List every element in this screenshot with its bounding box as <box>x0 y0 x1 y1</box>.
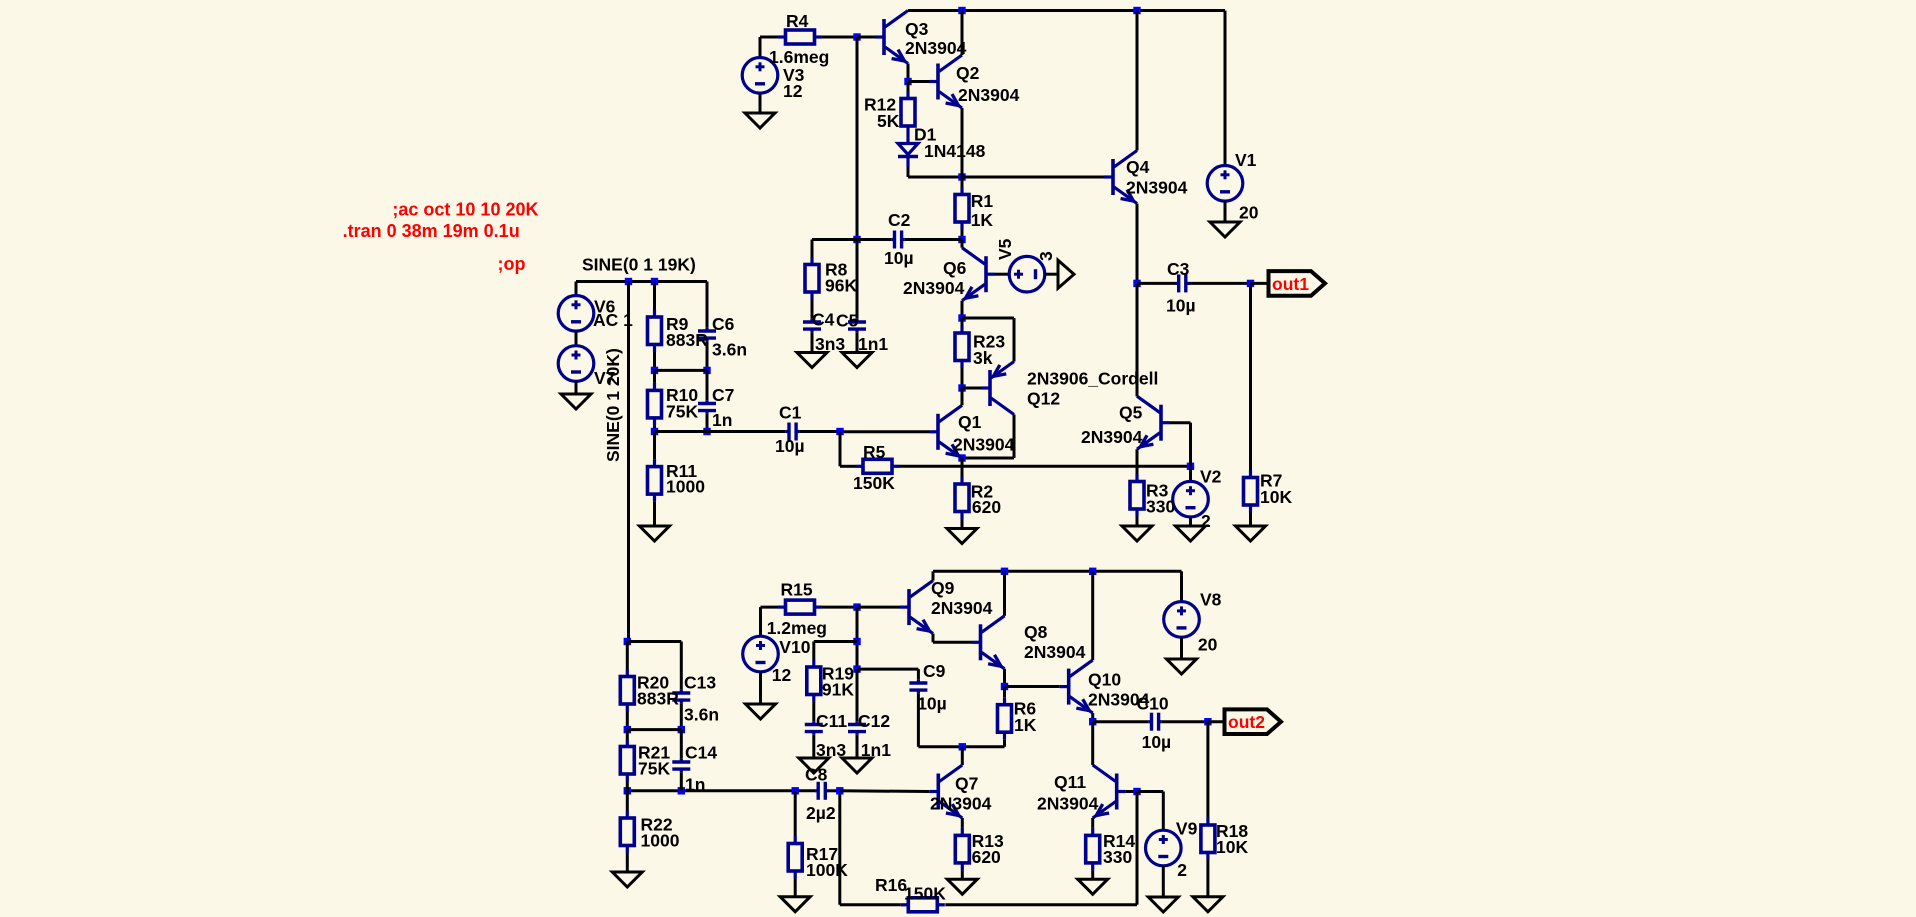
svg-text:2: 2 <box>1177 860 1187 880</box>
svg-text:91K: 91K <box>822 680 854 700</box>
svg-text:Q5: Q5 <box>1119 402 1143 422</box>
svg-text:V9: V9 <box>1176 818 1198 838</box>
svg-text:2µ2: 2µ2 <box>806 803 836 823</box>
svg-text:V1: V1 <box>1235 150 1257 170</box>
svg-text:C4: C4 <box>812 309 835 329</box>
svg-text:10µ: 10µ <box>1142 732 1172 752</box>
svg-text:3k: 3k <box>973 348 993 368</box>
svg-text:SINE(0 1 20K): SINE(0 1 20K) <box>603 348 623 462</box>
svg-text:V8: V8 <box>1200 589 1222 609</box>
svg-text:3n3: 3n3 <box>815 334 845 354</box>
svg-text:out2: out2 <box>1228 712 1265 732</box>
svg-text:;ac oct 10 10 20K: ;ac oct 10 10 20K <box>392 200 538 220</box>
svg-text:C3: C3 <box>1167 259 1190 279</box>
svg-text:C2: C2 <box>888 210 911 230</box>
svg-text:Q11: Q11 <box>1054 772 1086 792</box>
svg-text:330: 330 <box>1146 497 1175 517</box>
svg-text:C12: C12 <box>858 711 890 731</box>
svg-text:AC 1: AC 1 <box>593 310 633 330</box>
svg-text:Q8: Q8 <box>1024 622 1048 642</box>
svg-text:Q10: Q10 <box>1088 670 1121 690</box>
svg-text:3.6n: 3.6n <box>684 705 719 725</box>
svg-text:SINE(0 1 19K): SINE(0 1 19K) <box>582 254 696 274</box>
svg-text:1n: 1n <box>712 410 732 430</box>
svg-text:150K: 150K <box>904 884 946 904</box>
svg-text:Q1: Q1 <box>958 412 982 432</box>
svg-text:75K: 75K <box>638 759 670 779</box>
svg-text:1K: 1K <box>1014 715 1037 735</box>
svg-text:20: 20 <box>1239 202 1259 222</box>
svg-text:10µ: 10µ <box>917 694 947 714</box>
svg-text:3: 3 <box>1036 251 1056 261</box>
svg-text:.tran 0 38m 19m 0.1u: .tran 0 38m 19m 0.1u <box>343 221 520 241</box>
svg-text:96K: 96K <box>825 276 857 296</box>
svg-text:R15: R15 <box>781 579 813 599</box>
svg-text:20: 20 <box>1198 635 1218 655</box>
svg-text:Q7: Q7 <box>955 773 978 793</box>
svg-text:3.6n: 3.6n <box>712 339 747 359</box>
svg-text:1n: 1n <box>685 775 705 795</box>
svg-text:12: 12 <box>783 81 803 101</box>
svg-text:150K: 150K <box>853 473 895 493</box>
svg-text:2N3904: 2N3904 <box>931 598 993 618</box>
svg-text:2N3906_Cordell: 2N3906_Cordell <box>1027 368 1158 388</box>
svg-text:V2: V2 <box>1200 467 1222 487</box>
svg-text:2N3904: 2N3904 <box>1126 177 1188 197</box>
svg-text:1n1: 1n1 <box>858 334 888 354</box>
svg-text:out1: out1 <box>1272 274 1309 294</box>
svg-text:C6: C6 <box>712 314 735 334</box>
svg-text:R4: R4 <box>786 11 809 31</box>
svg-text:330: 330 <box>1103 847 1132 867</box>
svg-text:C8: C8 <box>805 764 828 784</box>
svg-text:10µ: 10µ <box>1166 296 1196 316</box>
svg-text:2N3904: 2N3904 <box>953 435 1015 455</box>
svg-text:10K: 10K <box>1216 837 1248 857</box>
svg-text:C10: C10 <box>1137 693 1169 713</box>
svg-text:C7: C7 <box>712 385 734 405</box>
svg-text:C5: C5 <box>836 310 859 330</box>
svg-text:R16: R16 <box>875 875 907 895</box>
svg-text:2N3904: 2N3904 <box>930 793 992 813</box>
svg-text:1.6meg: 1.6meg <box>769 47 829 67</box>
svg-text:2N3904: 2N3904 <box>958 85 1020 105</box>
svg-text:R5: R5 <box>863 442 886 462</box>
svg-text:883R: 883R <box>666 330 708 350</box>
svg-text:R1: R1 <box>971 191 994 211</box>
svg-text:2N3904: 2N3904 <box>1081 427 1143 447</box>
svg-text:C11: C11 <box>816 711 847 731</box>
svg-text:883R: 883R <box>637 688 679 708</box>
svg-text:;op: ;op <box>498 254 526 274</box>
svg-text:Q2: Q2 <box>956 63 980 83</box>
svg-text:C1: C1 <box>779 402 802 422</box>
svg-text:2N3904: 2N3904 <box>1024 642 1086 662</box>
svg-text:10K: 10K <box>1260 487 1292 507</box>
svg-text:C13: C13 <box>684 673 716 693</box>
svg-text:Q3: Q3 <box>905 19 929 39</box>
svg-text:5K: 5K <box>877 111 900 131</box>
svg-text:75K: 75K <box>666 402 698 422</box>
svg-text:2N3904: 2N3904 <box>905 38 967 58</box>
svg-text:Q6: Q6 <box>943 258 967 278</box>
svg-text:1K: 1K <box>971 210 994 230</box>
svg-text:Q9: Q9 <box>931 578 955 598</box>
svg-text:V10: V10 <box>779 637 810 657</box>
svg-text:Q12: Q12 <box>1027 389 1060 409</box>
svg-text:12: 12 <box>772 665 792 685</box>
svg-text:Q4: Q4 <box>1126 157 1150 177</box>
svg-text:V5: V5 <box>995 238 1015 260</box>
svg-text:620: 620 <box>972 497 1001 517</box>
svg-text:2: 2 <box>1201 511 1211 531</box>
svg-text:10µ: 10µ <box>775 436 805 456</box>
svg-text:100K: 100K <box>806 860 848 880</box>
svg-text:C9: C9 <box>923 661 946 681</box>
svg-text:3n3: 3n3 <box>816 740 846 760</box>
svg-text:1n1: 1n1 <box>861 740 891 760</box>
svg-text:10µ: 10µ <box>884 248 914 268</box>
svg-text:1000: 1000 <box>641 830 680 850</box>
svg-text:C14: C14 <box>685 743 717 763</box>
svg-text:2N3904: 2N3904 <box>903 278 965 298</box>
svg-text:1.2meg: 1.2meg <box>767 618 827 638</box>
svg-text:620: 620 <box>972 847 1001 867</box>
svg-text:1000: 1000 <box>666 477 705 497</box>
svg-text:2N3904: 2N3904 <box>1037 793 1099 813</box>
svg-text:1N4148: 1N4148 <box>924 141 986 161</box>
